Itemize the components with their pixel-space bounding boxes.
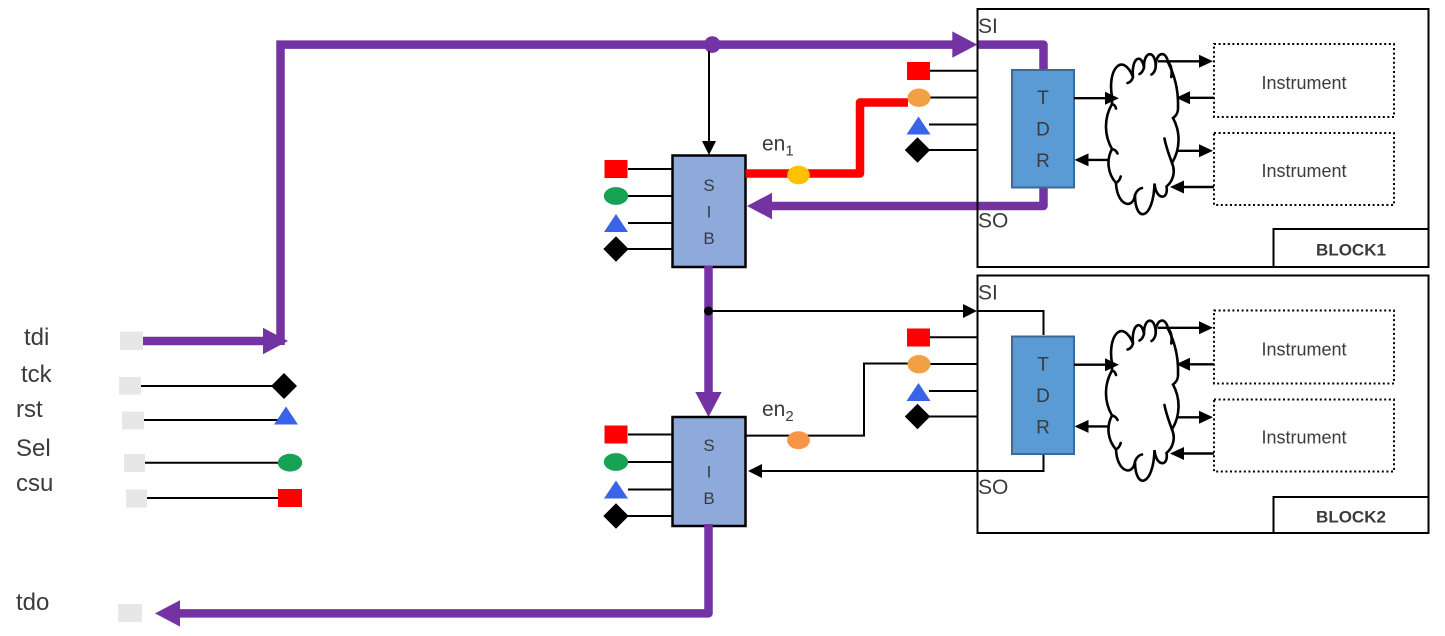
BLOCK1 select shape rst triangle (907, 117, 931, 135)
terminal csu square (278, 489, 302, 507)
svg-text:Instrument: Instrument (1261, 161, 1346, 181)
BLOCK1 outline (978, 9, 1429, 267)
instrument box 2a (1214, 311, 1394, 384)
SIB1 input shape Sel ellipse (604, 187, 628, 205)
SIB1 box (673, 156, 746, 268)
svg-text:S: S (703, 176, 714, 195)
SIB1 input shape rst triangle (604, 214, 628, 232)
svg-text:BLOCK2: BLOCK2 (1316, 508, 1386, 527)
svg-text:Sel: Sel (16, 435, 51, 462)
wire SI inside BLOCK2 (978, 311, 1044, 335)
wire cloud to instrument 1a (1158, 60, 1200, 62)
wire tck (141, 385, 275, 387)
SIB2 input stub tck (628, 515, 679, 517)
BLOCK2 name tag (1274, 497, 1429, 533)
terminal rst triangle (274, 407, 298, 425)
wire instrument 2b to cloud (1184, 452, 1214, 454)
SIB1 input stub csu (628, 168, 679, 170)
svg-text:D: D (1036, 120, 1050, 141)
wire instrument 1a to cloud (1189, 97, 1214, 99)
wire TDR1 to cloud (1074, 97, 1105, 99)
SIB1 input shape tck diamond (603, 236, 628, 261)
BLOCK2 select shape orange ellipse (908, 355, 931, 373)
svg-text:BLOCK1: BLOCK1 (1316, 241, 1386, 260)
BLOCK2 select stub csu (929, 336, 978, 338)
svg-text:SO: SO (978, 476, 1008, 499)
wire SIB2 to tdo (purple) (179, 524, 709, 613)
SIB2 box (673, 417, 746, 526)
BLOCK2 outline (978, 276, 1429, 534)
scan chain cloud 2 (1106, 321, 1179, 481)
terminal tck diamond (271, 373, 297, 399)
en1 amber ellipse (787, 166, 810, 185)
BLOCK2 select stub tck (929, 416, 978, 418)
wire cloud to instrument 1b (1177, 150, 1200, 152)
SIB2 input stub csu (628, 434, 679, 436)
svg-text:T: T (1037, 355, 1049, 376)
wire tdi scan-in (purple) (143, 337, 263, 346)
wire SO return BLOCK1 to SIB1 (purple) (771, 184, 1044, 206)
wire csu (147, 497, 280, 499)
BLOCK1 select shape tck diamond (905, 137, 930, 162)
wire instrument 2a to cloud (1189, 363, 1214, 365)
svg-text:tdi: tdi (24, 324, 49, 351)
svg-text:I: I (707, 463, 712, 482)
svg-text:B: B (703, 229, 714, 248)
BLOCK1 name tag (1274, 229, 1429, 267)
SIB2 input shape tck diamond (603, 503, 628, 528)
BLOCK2 select stub rst (929, 390, 978, 392)
svg-text:Instrument: Instrument (1261, 340, 1346, 360)
TDR2 box (1012, 337, 1074, 455)
wire riser tdi to top (purple) (281, 45, 954, 345)
SIB1 input stub Sel (628, 195, 679, 197)
SIB2 input stub Sel (628, 461, 679, 463)
svg-text:B: B (703, 489, 714, 508)
wire cloud to TDR2 (1088, 425, 1108, 427)
wire rst (144, 419, 278, 421)
svg-text:D: D (1036, 386, 1050, 407)
BLOCK1 select stub rst (929, 124, 978, 126)
svg-text:SI: SI (978, 282, 998, 305)
instrument box 1b (1214, 133, 1394, 205)
junction SIB1-out dot (704, 307, 713, 316)
wire SIB1 to SIB2 (purple) (704, 266, 713, 393)
SIB1 input stub rst (628, 222, 679, 224)
instrument box 2b (1214, 400, 1394, 472)
svg-text:R: R (1036, 418, 1050, 439)
wire Sel (145, 462, 282, 464)
BLOCK1 select shape orange ellipse (908, 89, 931, 107)
svg-text:T: T (1037, 88, 1049, 109)
pad tdi (120, 332, 143, 351)
wire cloud to instrument 2b (1177, 416, 1200, 418)
wire cloud to TDR1 (1088, 159, 1108, 161)
SIB1 input stub tck (628, 248, 679, 250)
BLOCK1 select stub tck (929, 149, 978, 151)
wire junction to BLOCK2 SI (709, 310, 965, 312)
wire SI inside BLOCK1 (purple) (978, 45, 1044, 72)
wire TDR2 to cloud (1074, 364, 1105, 366)
wire en2 SIB2 to BLOCK2 select (746, 364, 909, 436)
pad rst (122, 412, 144, 430)
wire SO return BLOCK2 to SIB2 (762, 453, 1044, 471)
scan chain cloud 1 (1106, 54, 1179, 214)
svg-text:Instrument: Instrument (1261, 428, 1346, 448)
svg-text:tck: tck (21, 361, 53, 388)
junction top scan dot (704, 36, 721, 53)
wire cloud to instrument 2a (1158, 327, 1200, 329)
BLOCK1 select stub csu (929, 70, 978, 72)
terminal Sel ellipse (278, 454, 302, 472)
SIB2 input shape rst triangle (604, 481, 628, 499)
svg-text:tdo: tdo (16, 589, 49, 616)
svg-text:S: S (703, 436, 714, 455)
pad Sel (124, 454, 145, 472)
wire en1 (red) SIB1 to BLOCK1 select (746, 103, 909, 174)
SIB2 input shape Sel ellipse (604, 453, 628, 471)
svg-text:rst: rst (16, 396, 43, 423)
svg-text:R: R (1036, 151, 1050, 172)
wire instrument 1b to cloud (1184, 186, 1214, 188)
BLOCK1 select shape csu square (907, 62, 930, 80)
BLOCK2 select shape tck diamond (905, 404, 930, 429)
wire junction to SIB1 select (708, 51, 710, 143)
SIB2 input shape csu square (605, 426, 628, 444)
SIB2 input stub rst (628, 489, 679, 491)
BLOCK1 select stub sel (930, 97, 978, 99)
BLOCK2 select shape rst triangle (907, 383, 931, 401)
TDR1 box (1012, 70, 1074, 188)
svg-text:SO: SO (978, 210, 1008, 233)
svg-text:I: I (707, 203, 712, 222)
en2 amber ellipse (787, 431, 810, 449)
svg-text:SI: SI (978, 15, 998, 38)
BLOCK2 select stub sel (930, 363, 978, 365)
SIB1 input shape csu square (605, 160, 628, 178)
instrument box 1a (1214, 44, 1394, 117)
pad csu (126, 490, 147, 508)
pad tck (119, 377, 141, 395)
svg-text:Instrument: Instrument (1261, 73, 1346, 93)
pad tdo (118, 604, 142, 622)
BLOCK2 select shape csu square (907, 329, 930, 347)
svg-text:csu: csu (16, 470, 53, 497)
